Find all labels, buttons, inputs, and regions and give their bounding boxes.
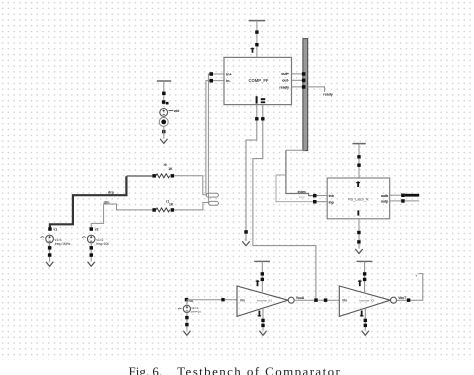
power supply branch vdd (left of comparator): [157, 81, 171, 105]
junction dot under X2 (lower): [364, 324, 367, 327]
svg-text:VouA: VouA: [296, 296, 305, 300]
dc source symbol (circle with solid dot): [159, 117, 168, 126]
wire stub to ground: [245, 234, 247, 241]
svg-text:ready: ready: [323, 92, 333, 96]
ground under V1: [46, 262, 53, 267]
junction dot outb: [401, 194, 405, 198]
wide wire stub outb: [405, 194, 420, 197]
svg-text:COMP_FF: COMP_FF: [248, 78, 268, 83]
wire gnd stem under inverter X2: [364, 309, 366, 331]
wire out- to bus: [292, 79, 304, 81]
wire thick net drp from source V1: [50, 176, 127, 229]
wide bus bar (thick vertical wire right of comparator): [303, 39, 308, 151]
terminal dot in-: [209, 79, 213, 83]
ground under supply: [160, 139, 167, 144]
svg-text:v1: v1: [53, 228, 57, 232]
pulse source V4 (clock input): [178, 298, 201, 314]
voltage source V3 (supply): [160, 109, 168, 117]
power supply T-bar over inverter X1: [254, 260, 270, 262]
ground under inverter X2: [362, 331, 369, 336]
op-amp comparator U1 COMP_FF box: [224, 57, 292, 104]
wire ready: [292, 87, 325, 92]
junction dot on clk input wire: [221, 298, 224, 301]
junction dot under X1 (lower): [261, 324, 264, 327]
svg-text:VouT: VouT: [398, 296, 406, 300]
wire out+ to bus: [292, 73, 304, 75]
wire V4 to ground: [186, 313, 188, 331]
junction dot latch inb: [313, 194, 317, 198]
pin label vdd (latch top, rotated glyph): [356, 181, 360, 187]
svg-text:out+: out+: [281, 72, 289, 76]
wire V1 to ground: [49, 243, 51, 262]
svg-text:inb: inb: [329, 194, 334, 198]
svg-text:v2: v2: [95, 228, 99, 232]
pin label gnd (latch bottom, rotated glyph): [357, 210, 359, 215]
wire vdd stem to inverter X2: [364, 261, 366, 293]
junction dot on clk pin wire: [261, 117, 264, 120]
wire latch gnd stem: [358, 219, 360, 249]
wire supply to ground: [163, 126, 165, 138]
junction dot outp: [401, 199, 405, 203]
junction dot under latch (upper): [357, 231, 360, 234]
power supply T-bar over latch: [353, 143, 366, 145]
junction dot on X2 vdd stem (upper): [363, 272, 366, 275]
junction dots pair on vdd branch: [162, 100, 169, 104]
wire inverter X1 output to inverter X2 input: [294, 299, 339, 301]
pin label gnd (X2 bottom, rotated glyph): [360, 311, 364, 317]
ground under latch: [355, 249, 362, 254]
svg-text:out-: out-: [282, 79, 290, 83]
svg-text:inbp: inbp: [299, 195, 305, 199]
resistor R2: [152, 208, 174, 212]
junction dot on latch vdd stem (lower): [357, 164, 360, 167]
svg-text:ready: ready: [279, 85, 289, 89]
value label R2: [166, 199, 174, 206]
svg-text:freq=10k: freq=10k: [96, 242, 109, 246]
wire comparator gnd pin to ground: [246, 105, 257, 232]
inverter X2: [339, 286, 396, 316]
wire vdd stem to latch: [358, 144, 360, 178]
wire loop to latch inp: [276, 175, 314, 202]
junction dot above ground: [244, 230, 248, 234]
junction dot under V1 (lower): [48, 253, 52, 256]
wire clk to inverter X1 input: [187, 299, 237, 301]
pin label vdd (X1 top, rotated glyph): [256, 280, 260, 286]
wire stub outp: [405, 200, 420, 202]
pin label vdd at comparator top: [251, 48, 255, 53]
svg-text:outp: outp: [381, 200, 388, 204]
power supply T-bar over inverter X2: [357, 260, 373, 262]
junction dot under latch (lower): [357, 240, 360, 243]
junction out-: [302, 79, 306, 83]
resistor R1: [152, 174, 174, 178]
svg-text:Vin: Vin: [240, 299, 245, 303]
junction dot on X1 output wire: [324, 298, 328, 302]
junction dot under V2 (lower): [90, 253, 94, 256]
svg-text:outb: outb: [381, 194, 388, 198]
ground below comparator: [242, 241, 249, 246]
wire bus bottom to latch routing: [286, 149, 306, 151]
junction dot clock net: [314, 298, 318, 302]
svg-text:drn: drn: [104, 201, 110, 205]
wire down to latch inb: [286, 150, 314, 195]
wire net drn from source V2: [91, 204, 153, 229]
junction dot on vdd stem (upper): [255, 30, 258, 33]
wire R1 to in- node: [174, 176, 207, 195]
caption Fig. 6: [129, 365, 342, 375]
svg-text:1K: 1K: [169, 203, 174, 207]
terminal dot in+: [209, 72, 213, 76]
wire R2 to in+ node: [174, 203, 209, 210]
svg-text:1K: 1K: [168, 167, 173, 171]
wire comparator in+ down to node: [208, 74, 224, 202]
svg-text:RS_Latch_R: RS_Latch_R: [348, 197, 369, 201]
svg-text:in+: in+: [226, 72, 231, 76]
junction dot under V4 (lower): [185, 323, 188, 326]
pin label vdd (X2 top, rotated glyph): [358, 280, 362, 286]
net connector hook node drp: [206, 193, 218, 197]
svg-text:per=1u: per=1u: [191, 310, 201, 314]
value label R1: [164, 163, 173, 171]
wire comparator clk pin to inverter output (clock net): [253, 105, 316, 301]
inverter X1: [237, 286, 294, 316]
junction dot on X1 vdd stem (upper): [261, 272, 264, 275]
svg-text:Inverter X2: Inverter X2: [359, 299, 374, 303]
net label vdd with leader: [169, 109, 180, 113]
junction dot latch inp: [313, 200, 317, 204]
junction dot under supply: [162, 130, 165, 133]
junction dot on latch vdd stem (upper): [357, 155, 360, 158]
ground under V2: [88, 262, 95, 267]
junction dot on vdd branch: [162, 92, 166, 96]
junction dot on vdd stem (lower): [255, 43, 258, 46]
wire V4 stem up to clk wire: [186, 300, 188, 306]
net connector hook node drn: [209, 201, 219, 205]
junction dot under X2 (upper): [364, 319, 367, 322]
junction dot on X2 vdd stem (lower): [363, 278, 366, 281]
pin label gnd (X1 bottom, rotated glyph): [258, 311, 262, 317]
wire to latch inb pin: [317, 195, 328, 197]
wire inverter X2 output: [397, 274, 423, 301]
svg-text:inbm: inbm: [298, 190, 306, 194]
wire latch outb: [390, 194, 402, 196]
voltage source V2: [82, 227, 109, 246]
power supply T-bar (vdd rail, top middle): [249, 20, 266, 22]
wire latch outp: [390, 200, 402, 202]
svg-text:Vin: Vin: [342, 299, 347, 303]
svg-text:freq=1MHz: freq=1MHz: [55, 242, 71, 246]
ground under V4: [183, 331, 190, 336]
svg-text:Inverter X1: Inverter X1: [257, 299, 272, 303]
wire to latch inp pin: [317, 201, 328, 203]
pin label s (comparator bottom, rotated glyph): [261, 98, 265, 103]
ground under inverter X1: [259, 331, 266, 336]
junction dot under V1 (upper): [48, 246, 52, 250]
junction dot under V4 (upper): [185, 316, 188, 319]
junction out+: [302, 72, 306, 76]
wire comparator in- down to node: [206, 81, 224, 194]
svg-text:vdd: vdd: [174, 109, 180, 113]
junction dot on X1 vdd stem (lower): [261, 278, 264, 281]
wire V2 to ground: [90, 243, 92, 262]
svg-text:inp: inp: [329, 200, 334, 204]
wire drp to resistor R1: [126, 175, 152, 177]
junction dot under V2 (upper): [90, 246, 94, 250]
voltage source V1: [41, 227, 71, 246]
junction dot under X1 (upper): [261, 319, 264, 322]
wire vdd stem to inverter X1: [261, 261, 263, 293]
latch U2 RS_Latch_R box: [327, 178, 390, 219]
junction dot on X2 output wire: [407, 298, 411, 302]
wire vdd stem to comparator top: [256, 21, 258, 58]
svg-text:drp: drp: [108, 190, 115, 194]
junction dot on gnd pin wire: [255, 117, 258, 120]
junction ready on bus: [302, 85, 306, 89]
svg-text:r0: r0: [164, 163, 167, 167]
wire gnd stem under inverter X1: [262, 309, 264, 331]
pin label clk (comparator bottom, rotated glyph): [256, 96, 258, 103]
